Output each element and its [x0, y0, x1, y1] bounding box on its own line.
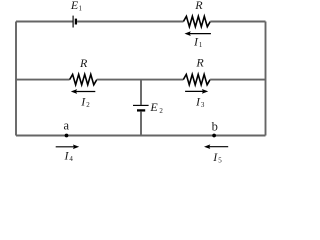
wire bottom segment: [16, 135, 266, 137]
wire top-middle segment: [77, 21, 183, 23]
wire right edge: [265, 22, 267, 136]
resistor R1 (top right): [183, 16, 210, 26]
label I3: [195, 94, 205, 109]
wire middle-left segment: [16, 79, 70, 81]
current arrow I1: [185, 31, 211, 36]
svg-text:b: b: [212, 119, 218, 133]
svg-text:a: a: [64, 118, 70, 132]
label a: [64, 118, 70, 132]
current arrow I4: [56, 144, 79, 149]
label E1: [70, 0, 83, 13]
label R (middle right): [195, 55, 204, 69]
current arrow I2: [71, 89, 96, 94]
svg-text:2: 2: [159, 107, 163, 115]
wire left edge: [15, 22, 17, 136]
svg-text:3: 3: [201, 101, 205, 109]
svg-text:R: R: [195, 55, 204, 69]
battery E1: [73, 16, 76, 28]
label I1: [193, 35, 203, 50]
resistor R2 (middle left): [70, 74, 97, 84]
label R (top): [194, 0, 203, 12]
svg-text:1: 1: [199, 41, 203, 49]
wire center vertical lower: [140, 111, 142, 135]
svg-text:E: E: [149, 100, 158, 114]
label I5: [212, 150, 222, 165]
label I4: [64, 149, 74, 164]
svg-text:5: 5: [218, 157, 222, 164]
node b: [212, 134, 216, 138]
svg-text:2: 2: [86, 101, 90, 109]
svg-text:4: 4: [69, 155, 73, 163]
node a: [65, 134, 69, 138]
wire center vertical upper: [140, 80, 142, 105]
svg-text:R: R: [79, 56, 88, 70]
wire top-right segment: [210, 21, 265, 23]
wire middle-center segment: [97, 79, 184, 81]
label I2: [80, 94, 90, 109]
svg-text:1: 1: [79, 5, 83, 13]
resistor R3 (middle right): [183, 74, 210, 84]
wire middle-right segment: [210, 79, 265, 81]
current arrow I3: [185, 89, 208, 94]
current arrow I5: [204, 144, 228, 149]
label R (middle left): [79, 56, 88, 70]
wire top-left segment: [16, 21, 73, 23]
svg-text:R: R: [194, 0, 203, 12]
label b: [212, 119, 218, 133]
label E2: [149, 100, 163, 115]
battery E2: [133, 105, 149, 110]
